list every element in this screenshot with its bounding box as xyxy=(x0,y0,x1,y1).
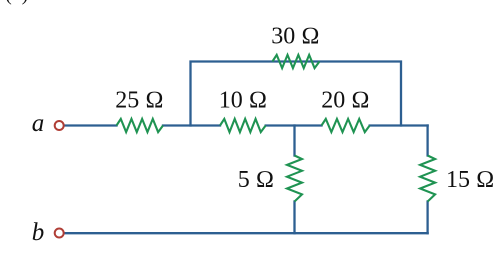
svg-text:30 Ω: 30 Ω xyxy=(271,24,319,50)
svg-text:5 Ω: 5 Ω xyxy=(238,167,274,193)
svg-text:15 Ω: 15 Ω xyxy=(446,167,494,193)
svg-text:10 Ω: 10 Ω xyxy=(219,88,267,114)
svg-text:(: ( xyxy=(5,0,11,5)
svg-text:20 Ω: 20 Ω xyxy=(321,88,369,114)
svg-text:25 Ω: 25 Ω xyxy=(115,88,163,114)
svg-text:a: a xyxy=(32,110,45,137)
svg-text:): ) xyxy=(22,0,28,5)
svg-text:b: b xyxy=(32,219,45,246)
